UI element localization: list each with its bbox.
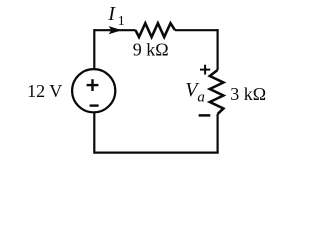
resistor R1 9 kOhm zigzag: [136, 23, 176, 37]
label 12 V: [27, 81, 62, 101]
current arrow I1: [109, 27, 120, 34]
wire top-right horizontal: [175, 29, 218, 31]
voltage source V1 circle: [72, 69, 115, 112]
label I1: [107, 3, 125, 29]
label Va: [185, 79, 205, 106]
wire left vertical upper: [93, 29, 95, 69]
wire right vertical upper: [217, 29, 219, 70]
minus sign inside source: [90, 104, 99, 106]
wire right vertical lower: [217, 114, 219, 153]
label 9 kOhm: [133, 39, 169, 59]
wire top-left horizontal: [94, 29, 135, 31]
svg-text:1: 1: [118, 14, 125, 29]
wire left vertical lower: [93, 112, 95, 154]
svg-text:3 kΩ: 3 kΩ: [230, 84, 266, 104]
plus sign inside source: [87, 79, 99, 91]
wire bottom horizontal: [94, 152, 218, 154]
svg-text:a: a: [197, 90, 205, 106]
svg-text:12 V: 12 V: [27, 81, 62, 101]
label 3 kOhm: [230, 84, 266, 104]
minus sign of Va: [199, 114, 211, 117]
plus sign of Va: [200, 65, 210, 75]
svg-text:9 kΩ: 9 kΩ: [133, 39, 169, 59]
resistor R2 3 kOhm zigzag: [210, 70, 224, 114]
svg-text:I: I: [107, 3, 116, 25]
